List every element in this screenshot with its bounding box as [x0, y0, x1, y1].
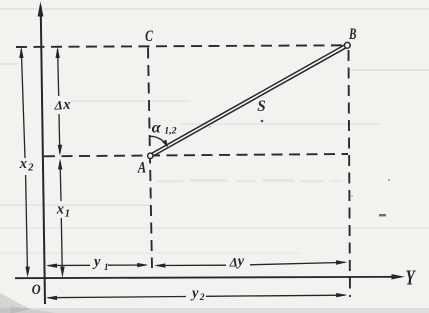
dimension delta-y (horizontal at y~263) [157, 264, 227, 266]
svg-text:1,2: 1,2 [164, 126, 176, 137]
svg-text:A: A [137, 159, 146, 176]
node A marker [148, 153, 153, 158]
X axis arrowhead [38, 2, 44, 17]
svg-text:Δ: Δ [229, 254, 238, 269]
dimension y1 (horizontal at y~264) [48, 264, 90, 266]
dimension x1 (vertical at x~60.5, from A level to axis) [59, 161, 62, 201]
svg-text:1: 1 [65, 209, 70, 220]
svg-text:O: O [32, 281, 41, 297]
dashed horizontal through C and B (top) [16, 45, 344, 47]
svg-text:2: 2 [199, 293, 205, 303]
dashed vertical through C and A [148, 48, 152, 269]
svg-text:2: 2 [27, 163, 34, 174]
svg-text:C: C [145, 27, 153, 44]
svg-text:S: S [257, 98, 266, 115]
svg-text:y: y [190, 286, 199, 302]
angle arc alpha_1,2 [150, 136, 167, 146]
scan smudges / specks [0, 120, 390, 313]
Y axis arrowhead [392, 274, 405, 279]
Y axis (horizontal) [15, 277, 398, 278]
svg-text:y: y [236, 254, 245, 270]
svg-text:B: B [348, 25, 356, 42]
svg-text:α: α [152, 119, 162, 136]
line S (double line from A to B) [150, 45, 346, 157]
svg-text:Δ: Δ [54, 98, 63, 113]
svg-text:y: y [92, 254, 101, 270]
svg-text:1: 1 [104, 262, 109, 272]
dimension y2 (horizontal at y~296.5) [48, 297, 186, 298]
svg-text:x: x [56, 202, 64, 218]
X axis (vertical) [41, 6, 45, 304]
dashed vertical through B [349, 50, 351, 297]
dashed horizontal through A [44, 154, 348, 156]
svg-text:x: x [62, 97, 70, 113]
svg-text:x: x [19, 156, 27, 172]
svg-text:Y: Y [406, 266, 417, 289]
dimension x2 (vertical line at x~26) [21, 49, 25, 158]
dimension delta-x (vertical at x~59, from top dashed to A level) [58, 49, 59, 96]
node B marker [344, 42, 350, 48]
